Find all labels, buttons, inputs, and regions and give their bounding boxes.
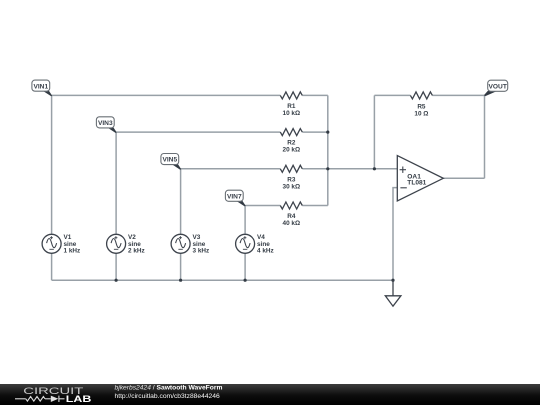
svg-text:VOUT: VOUT — [489, 83, 507, 90]
wire R4 right lead to collector — [302, 205, 328, 207]
wire V3 column upper — [180, 169, 182, 235]
wire V1 column lower — [51, 253, 53, 280]
wire VIN1 row to R1 — [52, 94, 281, 96]
op-amp OA1 — [397, 156, 443, 201]
svg-text:2 kHz: 2 kHz — [128, 248, 145, 255]
svg-text:30 kΩ: 30 kΩ — [283, 183, 301, 190]
wire VIN5 row to R3 — [181, 168, 281, 170]
svg-text:R2: R2 — [287, 140, 296, 147]
svg-text:R4: R4 — [287, 213, 296, 220]
svg-text:3 kHz: 3 kHz — [193, 248, 210, 255]
svg-text:10 kΩ: 10 kΩ — [283, 110, 301, 117]
wire VIN7 row to R4 — [245, 205, 280, 207]
node V4-rail junction — [244, 279, 247, 282]
svg-text:R1: R1 — [287, 103, 296, 110]
resistor R1 — [280, 92, 302, 99]
logo squiggle — [15, 396, 65, 402]
svg-text:40 kΩ: 40 kΩ — [283, 220, 301, 227]
wire feedback vertical up to R5 — [373, 95, 375, 168]
wire V2 column upper — [115, 132, 117, 234]
resistor R5 — [410, 92, 432, 99]
svg-text:20 kΩ: 20 kΩ — [283, 147, 301, 154]
resistor R3 — [280, 165, 302, 172]
svg-text:VIN7: VIN7 — [227, 193, 242, 200]
wire R2 right lead to collector — [302, 131, 328, 133]
wire VOUT vertical down — [484, 95, 486, 178]
wire R1 right lead to collector — [302, 94, 328, 96]
source V2 — [107, 234, 145, 255]
svg-text:10 Ω: 10 Ω — [414, 111, 428, 118]
wire op-amp minus stub — [393, 188, 397, 281]
flag VIN5 — [161, 154, 181, 170]
svg-text:TL081: TL081 — [407, 180, 426, 187]
svg-text:4 kHz: 4 kHz — [257, 248, 274, 255]
svg-text:VIN3: VIN3 — [98, 120, 113, 127]
junction dots — [115, 131, 395, 282]
wire V2 column lower — [115, 253, 117, 280]
svg-text:VIN5: VIN5 — [162, 157, 177, 164]
node V3-rail junction — [179, 279, 182, 282]
wire R5 left lead — [374, 94, 410, 96]
wire V1 column upper — [51, 95, 53, 234]
resistor R2 — [280, 129, 302, 136]
ground — [385, 280, 401, 306]
source V1 — [42, 234, 80, 255]
node R2-collector junction — [326, 131, 329, 134]
node R3-collector junction — [326, 167, 329, 170]
svg-text:R3: R3 — [287, 176, 296, 183]
wire bottom rail — [52, 279, 393, 281]
wire R3 right to op-amp + input — [302, 168, 397, 170]
node feedback junction — [373, 167, 376, 170]
svg-text:VIN1: VIN1 — [33, 83, 48, 90]
flag VIN1 — [32, 80, 52, 96]
node V2-rail junction — [115, 279, 118, 282]
footer bar — [0, 384, 540, 405]
svg-text:http://circuitlab.com/cb3tz88e: http://circuitlab.com/cb3tz88e44246 — [115, 393, 220, 400]
wire op-amp output — [443, 177, 484, 179]
node ground-rail junction — [391, 279, 394, 282]
source V3 — [171, 234, 209, 255]
wire VIN3 row to R2 — [116, 131, 280, 133]
wire R5 right lead to VOUT corner — [432, 94, 484, 96]
wire V4 column lower — [244, 253, 246, 280]
svg-text:R5: R5 — [417, 104, 426, 111]
value label R1 — [283, 103, 429, 227]
flag VIN7 — [225, 190, 245, 206]
svg-text:1 kHz: 1 kHz — [64, 248, 81, 255]
svg-text:LAB: LAB — [66, 393, 92, 404]
flag VOUT — [484, 80, 508, 96]
svg-text:bjkerbs2424 / Sawtooth WaveFor: bjkerbs2424 / Sawtooth WaveForm — [115, 384, 223, 391]
source V4 — [236, 234, 274, 255]
wire V3 column lower — [180, 253, 182, 280]
flag VIN3 — [96, 117, 116, 133]
wire collector vertical — [327, 95, 329, 205]
wire V4 column upper — [244, 206, 246, 235]
resistor R4 — [280, 202, 302, 209]
